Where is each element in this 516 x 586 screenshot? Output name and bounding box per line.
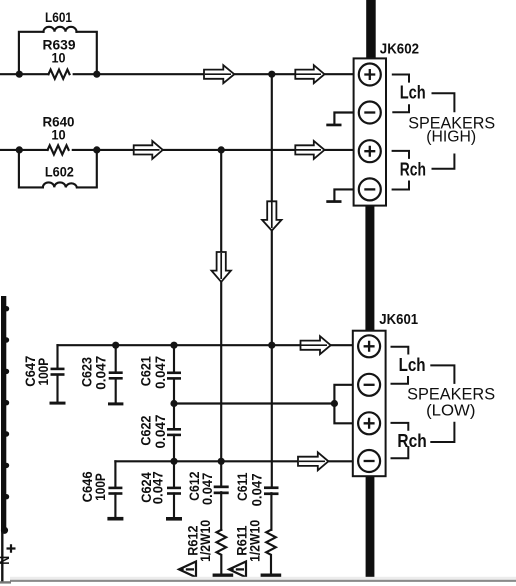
capacitor C624 end bar <box>166 517 182 521</box>
speaker brackets JK601 <box>391 347 455 459</box>
capacitor C624 plates <box>167 487 181 490</box>
resistor R639 <box>49 70 70 79</box>
node WB-C624 <box>170 458 177 465</box>
capacitor C646 <box>114 461 116 517</box>
bracket JK602 terminal 2 <box>392 104 409 112</box>
bus bar below JK601 <box>366 475 375 578</box>
capacitor C611 plates <box>264 486 279 489</box>
svg-text:10: 10 <box>52 50 66 66</box>
capacitor C622 plates <box>167 428 181 431</box>
bus bar between JK602 and JK601 <box>365 204 374 332</box>
capacitor C612 lower wire <box>220 492 222 530</box>
resistor R612 end bar <box>213 574 234 578</box>
resistor R612 <box>217 530 227 574</box>
wire W3 Rch-high y=150 left segment <box>0 149 48 151</box>
svg-text:L602: L602 <box>45 163 74 179</box>
node W3-L602 right <box>93 146 100 153</box>
ground JK602 terminal 4 <box>334 189 359 200</box>
capacitor C623 <box>115 345 117 402</box>
JK602 terminal 2 minus <box>359 102 381 124</box>
cap plates <box>50 124 342 578</box>
bracket JK601 terminal 4 <box>391 446 409 458</box>
node W1-L601 right <box>93 71 100 78</box>
bracket Lch high <box>432 93 455 112</box>
wire through arrow W3 a <box>135 149 160 151</box>
capacitor C612 plates <box>214 486 229 489</box>
node W1-L601 left <box>16 71 23 78</box>
wire vertical A x=272 <box>271 74 273 486</box>
connector JK601 box <box>353 331 386 477</box>
capacitor C623 end bar <box>108 402 123 405</box>
node WB-C612 <box>218 458 225 465</box>
wire through arrow W1 b <box>296 73 321 75</box>
svg-text:JK602: JK602 <box>380 40 419 57</box>
arrow W3 b <box>295 141 324 159</box>
arrow W1 b <box>295 65 324 83</box>
svg-text:1/2W10: 1/2W10 <box>197 520 213 562</box>
svg-text:1/2W10: 1/2W10 <box>247 520 263 562</box>
page border bottom <box>10 577 516 580</box>
capacitor C647 plates <box>51 368 65 371</box>
capacitor C646 plates <box>108 487 122 490</box>
svg-text:(LOW): (LOW) <box>426 403 475 420</box>
left bus junction nubs <box>4 306 9 311</box>
JK601 pin 2 minus sign <box>364 384 375 386</box>
svg-text:Lch: Lch <box>400 83 426 103</box>
svg-text:0.047: 0.047 <box>152 356 168 389</box>
bracket Rch low <box>430 422 454 442</box>
JK601 terminal 1 plus <box>358 335 380 357</box>
warning triangle R612 <box>179 562 196 578</box>
warning triangle R611 <box>229 562 246 578</box>
JK602 pin 1 plus sign <box>364 69 375 80</box>
arrow W3 a <box>134 141 163 159</box>
ground bar JK602 terminal 4 <box>326 200 341 203</box>
resistor R611 <box>266 530 276 574</box>
JK601 pin 1 plus sign <box>364 341 375 352</box>
node W3-L602 left <box>16 146 23 153</box>
wire middle low y=403.5 <box>174 402 334 404</box>
connector JK602 box <box>354 58 386 205</box>
capacitor C623 plates <box>109 371 123 374</box>
capacitor C611 lower wire <box>270 493 272 530</box>
arrow down wire B <box>212 252 231 282</box>
node WM-C622 <box>170 400 177 407</box>
svg-text:JK601: JK601 <box>379 311 418 328</box>
bus bar top (to JK602) <box>366 0 376 59</box>
node WT-C623 <box>112 342 119 349</box>
JK601 terminal 3 plus <box>358 412 380 434</box>
svg-text:0.047: 0.047 <box>152 414 168 448</box>
capacitor C647 end bar <box>50 402 66 405</box>
node WM-jog <box>331 400 338 407</box>
svg-text:(HIGH): (HIGH) <box>426 129 476 146</box>
svg-text:Lch: Lch <box>399 355 426 375</box>
wire vertical B x=221 <box>220 150 222 486</box>
JK602 pin 3 plus sign <box>364 146 375 157</box>
JK601 pin 4 minus sign <box>364 460 375 462</box>
wire through arrow WT <box>301 344 327 346</box>
arrow WB <box>298 452 328 470</box>
JK601 terminal 4 minus <box>358 450 380 472</box>
wire jog JK601 terminals 2-3 <box>334 385 359 424</box>
signal arrows <box>134 65 331 470</box>
arrow W1 a <box>204 65 234 83</box>
svg-text:10: 10 <box>51 126 65 142</box>
arrow WT <box>301 336 331 354</box>
capacitor C624 <box>173 461 175 517</box>
svg-text:0.047: 0.047 <box>199 473 215 505</box>
wire through down arrow B <box>220 253 222 279</box>
resistor R611 end bar <box>261 574 282 578</box>
wire through arrow W1 a <box>205 73 231 75</box>
svg-text:100P: 100P <box>35 358 51 386</box>
svg-text:0.047: 0.047 <box>93 356 109 390</box>
svg-text:C621: C621 <box>137 356 153 386</box>
JK601 pin 3 plus sign <box>364 418 375 429</box>
capacitor C647 <box>56 345 58 401</box>
bracket JK601 terminal 3 <box>391 423 409 431</box>
speaker brackets JK602 <box>392 75 455 190</box>
bracket JK601 terminal 1 <box>391 347 409 355</box>
wire through arrow WB <box>299 460 325 462</box>
JK602 terminal 3 plus <box>359 140 381 162</box>
svg-text:SPEAKERS: SPEAKERS <box>407 385 495 404</box>
JK602 pin 4 minus sign <box>364 188 375 190</box>
arrow down wire A <box>262 201 281 230</box>
capacitor C622 <box>173 404 175 462</box>
svg-text:L601: L601 <box>45 9 72 25</box>
wire through down arrow A <box>271 202 273 228</box>
capacitor C621 plates <box>167 372 181 375</box>
svg-text:C622: C622 <box>137 415 153 445</box>
wire below bus bar <box>1 532 3 582</box>
plus mark near N <box>7 544 16 552</box>
inductor L601 parallel branch <box>19 32 97 74</box>
capacitor C646 end bar <box>107 517 123 521</box>
svg-text:0.047: 0.047 <box>248 473 264 506</box>
wire bottom low y=461.3 <box>115 460 359 462</box>
bracket Rch high <box>432 154 455 169</box>
wire W1 right segment <box>74 73 360 75</box>
node WT-C621 <box>170 342 177 349</box>
bracket JK602 terminal 4 <box>392 181 409 190</box>
node W1-A <box>268 71 275 78</box>
svg-text:0.047: 0.047 <box>149 471 165 504</box>
bracket JK602 terminal 1 <box>392 75 409 83</box>
svg-text:N: N <box>0 556 12 565</box>
wire W1 Lch-high y=74 left segment <box>0 73 49 75</box>
left bus bar <box>1 296 6 533</box>
ground JK602 terminal 2 <box>334 113 359 124</box>
svg-text:Rch: Rch <box>400 159 426 179</box>
JK602 pin 2 minus sign <box>364 111 375 113</box>
capacitor C621 <box>173 345 175 403</box>
bracket JK602 terminal 3 <box>392 151 409 159</box>
JK602 terminal 4 minus <box>359 178 381 200</box>
node WT-A <box>268 342 275 349</box>
wire through arrow W3 b <box>296 149 321 151</box>
rotated labels <box>0 356 264 565</box>
JK601 terminal 2 minus <box>358 374 380 396</box>
inductor L602 parallel branch <box>19 150 97 188</box>
resistor R640 <box>48 145 69 154</box>
ground bar JK602 terminal 2 <box>326 124 341 127</box>
wire W3 right segment <box>73 149 360 151</box>
wire top low y=345 <box>58 344 360 346</box>
svg-text:Rch: Rch <box>397 431 426 451</box>
bracket Lch low <box>430 365 454 384</box>
node W3-B <box>218 146 225 153</box>
bracket JK601 terminal 2 <box>391 376 409 384</box>
JK602 terminal 1 plus <box>359 64 381 86</box>
svg-text:100P: 100P <box>92 473 108 501</box>
